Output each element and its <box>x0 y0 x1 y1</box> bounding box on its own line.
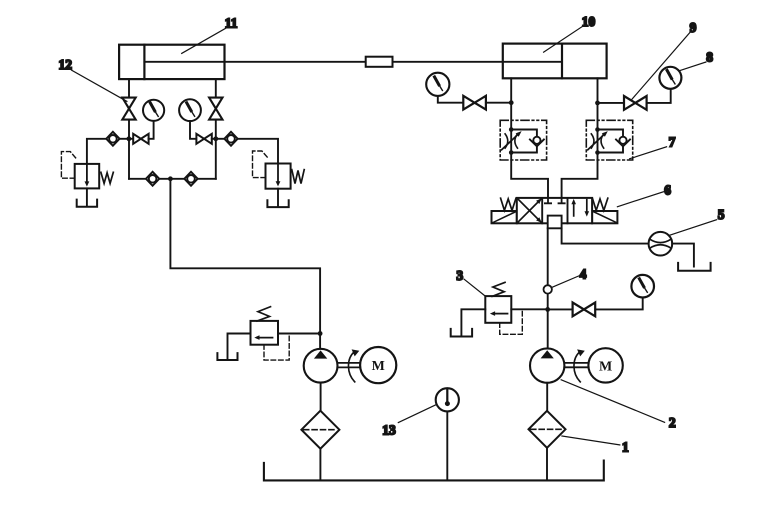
valve 6 P-T bypass box <box>548 216 562 229</box>
valve 6 blocked ports center <box>545 198 565 203</box>
directional valve 6 left flange <box>492 211 517 223</box>
rotation arrow M2 <box>574 349 585 382</box>
svg-text:5: 5 <box>718 207 725 222</box>
wire 3L inlet <box>278 333 320 335</box>
svg-text:1: 1 <box>622 440 629 455</box>
label 12 <box>59 57 127 101</box>
filter F1 <box>529 411 566 448</box>
shut-off valve 9 <box>624 96 647 110</box>
wire C10 left port main line <box>511 78 548 198</box>
label 11 <box>182 16 238 54</box>
label 7 <box>630 134 676 158</box>
pump P1 <box>304 349 338 383</box>
svg-text:13: 13 <box>382 423 396 438</box>
wire thermometer to tank <box>446 411 448 480</box>
shut-off valve 12 left <box>122 98 135 120</box>
node C10 left port <box>509 100 514 105</box>
node junction L <box>126 136 131 141</box>
flow meter 5 <box>649 232 673 256</box>
check valve in unit R <box>616 137 630 147</box>
wire C11 left port <box>128 79 130 98</box>
relief valve R spring <box>292 170 304 184</box>
motor M2 <box>588 348 622 382</box>
wire gauge G2 elbow <box>190 121 196 139</box>
tank symbol R <box>267 200 288 207</box>
check valve B2 <box>184 172 197 186</box>
relief valve L body <box>75 164 100 189</box>
wire relief-L riser and run <box>87 139 106 164</box>
wire run to relief-R riser <box>238 139 278 164</box>
test point 4 <box>544 285 552 293</box>
relief valve R drain <box>277 189 279 206</box>
svg-text:11: 11 <box>225 16 238 31</box>
wire 3 outlet to tank <box>461 309 485 335</box>
wire C11 right port <box>215 79 217 98</box>
check branch right <box>598 130 624 153</box>
node branch top R <box>595 127 600 132</box>
wire isolator to port <box>486 102 511 104</box>
flow control unit 7 right enclosure <box>586 120 632 160</box>
wire T line to flow meter <box>562 228 649 243</box>
wire valve12L down <box>128 120 130 179</box>
tank symbol 5 <box>678 263 711 271</box>
relief valve 3 body <box>485 296 511 323</box>
svg-text:10: 10 <box>582 14 596 29</box>
wire to check A2 <box>212 138 225 140</box>
relief valve 3L spring <box>257 307 271 321</box>
rotation arrow M1 <box>348 349 359 382</box>
directional valve 6 right flange <box>592 211 617 223</box>
svg-text:8: 8 <box>706 50 713 65</box>
node P tee <box>545 307 550 312</box>
pressure gauge G2 <box>179 99 201 121</box>
cylinder 11 <box>119 45 224 79</box>
label 2 <box>561 380 676 430</box>
pump P2 <box>530 348 564 382</box>
label 5 <box>670 207 725 235</box>
svg-text:4: 4 <box>580 267 587 282</box>
cylinder 10 <box>503 44 607 79</box>
isolating valve R <box>196 134 211 144</box>
label 13 <box>382 405 436 438</box>
wire 3 inlet <box>511 308 547 310</box>
wire valve 9 to gauge 8 <box>647 89 671 103</box>
relief valve R body <box>266 164 291 189</box>
filter F2 <box>301 411 339 449</box>
pressure gauge 8 <box>659 67 681 89</box>
piston rod linking cylinders <box>144 61 562 63</box>
check valve in unit L <box>530 137 544 147</box>
flow control unit 7 left enclosure <box>500 120 546 160</box>
wire gauge to isolator <box>438 96 464 103</box>
wire 3L outlet to tank <box>228 334 251 359</box>
check valve B1 <box>146 172 159 186</box>
wire supply run to left pump <box>170 179 320 349</box>
directional valve 6 body <box>517 198 592 223</box>
valve 6 spring left <box>501 198 516 210</box>
tank symbol 3 <box>451 329 472 337</box>
throttle valve right <box>588 131 608 150</box>
wire to isolator L <box>120 138 134 140</box>
svg-text:12: 12 <box>59 57 73 72</box>
wire port to valve 9 <box>598 102 625 104</box>
throttle valve left <box>502 131 522 150</box>
reservoir line <box>264 461 604 481</box>
relief valve L drain <box>86 188 88 205</box>
label 6 <box>617 183 671 207</box>
svg-text:2: 2 <box>669 415 676 430</box>
rod coupler block <box>366 57 393 67</box>
relief valve 3L body <box>251 321 279 345</box>
node branch bottom R <box>595 150 600 155</box>
wire P1 to filter <box>320 383 322 411</box>
node branch top L <box>509 127 514 132</box>
label 8 <box>680 50 714 71</box>
isolating valve L <box>133 134 148 144</box>
wire bottom bus mid <box>159 178 184 180</box>
relief valve 3L pilot line <box>264 334 289 360</box>
svg-text:M: M <box>372 359 385 374</box>
relief valve L pilot line <box>61 152 76 179</box>
node bottom junction <box>168 176 173 181</box>
label 4 <box>552 267 586 288</box>
svg-text:M: M <box>599 360 612 375</box>
valve 6 spring right <box>592 198 607 210</box>
label 3 <box>456 268 485 296</box>
motor M1 <box>360 347 396 383</box>
wire P tee to gauge valve <box>548 308 573 310</box>
wire F1 to tank <box>546 448 548 481</box>
thermometer 13 <box>436 388 459 411</box>
tank symbol 3L <box>217 353 237 360</box>
valve 6 straight arrows <box>571 199 589 217</box>
shut-off valve top-left <box>463 96 486 110</box>
wire C10 right port main line <box>562 78 598 198</box>
label 9 <box>632 20 697 99</box>
relief valve 3 spring <box>492 282 505 296</box>
wire P line down <box>547 228 549 348</box>
check branch left <box>511 130 537 153</box>
node junction R <box>213 136 218 141</box>
svg-text:7: 7 <box>669 134 676 149</box>
wire bottom bus left <box>129 178 146 180</box>
wire valve to gauge mid <box>595 298 642 310</box>
svg-text:3: 3 <box>456 268 463 283</box>
node C10 right port <box>595 101 600 106</box>
relief valve 3 pilot line <box>500 310 523 334</box>
svg-text:6: 6 <box>664 183 671 198</box>
tank symbol L <box>77 200 97 207</box>
label 10 <box>544 14 596 52</box>
node pump tee <box>318 331 323 336</box>
wire bottom bus right <box>198 178 216 180</box>
node branch bottom L <box>509 150 514 155</box>
wire flow meter to tank <box>672 244 694 267</box>
check valve A2 <box>224 132 237 146</box>
label 1 <box>562 436 629 455</box>
valve 6 crossed arrows <box>518 198 541 223</box>
pressure gauge C10 left <box>426 73 449 96</box>
relief valve L spring <box>101 172 113 183</box>
check valve A1 <box>106 132 119 146</box>
wire valve12R down <box>215 120 217 179</box>
wire P2 to filter <box>546 383 548 411</box>
shaft P2-M2 <box>565 363 589 367</box>
shaft P1-M1 <box>338 363 360 368</box>
svg-text:9: 9 <box>690 20 697 35</box>
shut-off valve mid <box>573 303 596 317</box>
pressure gauge mid <box>631 275 654 298</box>
wire elbow to gauge G1 <box>149 121 154 139</box>
shut-off valve 12 right <box>209 98 222 120</box>
wire F2 to tank <box>319 449 321 481</box>
pressure gauge G1 <box>143 100 164 121</box>
relief valve R pilot line <box>253 151 269 178</box>
